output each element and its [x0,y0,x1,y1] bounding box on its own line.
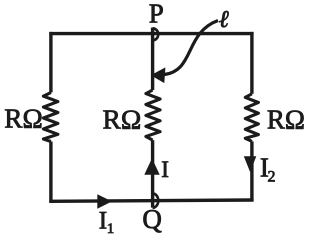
svg-text:P: P [149,0,164,29]
wire: bottom rail through node Q [49,200,253,201]
svg-text:I: I [161,157,169,182]
svg-text:RΩ: RΩ [103,104,142,135]
wire: right branch upper segment [250,32,253,94]
node P terminal bubble (half-circle on middle branch at top rail) [153,28,159,40]
resistor R3 (right branch, value RΩ) [245,94,258,142]
svg-text:RΩ: RΩ [267,104,305,134]
svg-text:Q: Q [142,204,162,234]
resistor R2 (middle branch, value RΩ) [146,90,160,140]
svg-text:RΩ: RΩ [4,104,43,134]
svg-text:ℓ: ℓ [219,7,229,33]
pointer arrowhead (tip of ℓ arrow touching middle wire) [151,67,166,83]
current arrow I (upward on middle branch) [144,158,159,175]
svg-text:1: 1 [107,221,115,237]
current arrow I2 (downward on right branch) [244,156,256,172]
wire: left branch upper segment [49,32,52,93]
wire: middle branch upper segment (node P to resistor) [151,28,154,90]
node Q terminal bubble (half-circle on middle branch at bottom rail) [153,193,159,207]
wire: middle branch lower segment (resistor to node Q) [151,140,154,208]
wire: left branch lower segment [49,142,52,204]
resistor R1 (left branch, value RΩ) [43,93,58,142]
current arrow I1 (rightward on bottom rail) [97,194,112,209]
wire: right branch lower segment [250,141,253,201]
wire: top rail from left corner through node P to right corner [49,32,253,35]
pointer arrow curve from label ℓ to middle branch wire [164,21,218,75]
svg-text:2: 2 [268,168,276,185]
